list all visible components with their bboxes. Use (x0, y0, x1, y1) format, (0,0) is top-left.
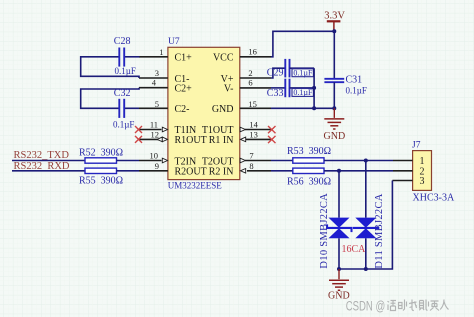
node D10 tap junction (337, 169, 341, 173)
svg-text:11: 11 (150, 120, 158, 130)
U7 pin 9 stub (139, 170, 168, 172)
node bus/pin15 junction (312, 106, 316, 110)
no-connect X pin 12 (135, 136, 142, 143)
U7 pin numbers left (150, 47, 164, 171)
svg-text:C2+: C2+ (175, 84, 193, 95)
wire C29 to bus (290, 67, 315, 69)
U7 pin 8 stub (240, 169, 271, 174)
capacitor C31 (324, 79, 344, 82)
J7 pin numbers (420, 156, 425, 187)
capacitor C32 (119, 99, 124, 118)
node bus/C33 junction (312, 86, 316, 90)
watermark chinese glyphs (388, 300, 449, 311)
svg-text:14: 14 (249, 119, 258, 129)
svg-text:C31: C31 (346, 74, 363, 85)
svg-text:R55 390Ω: R55 390Ω (79, 176, 123, 187)
svg-text:J7: J7 (412, 141, 421, 151)
wire R55 to pin9 (117, 170, 140, 172)
svg-text:R53 390Ω: R53 390Ω (287, 146, 331, 157)
svg-text:3: 3 (420, 176, 425, 187)
wire bus C29/C33 down to pin15 wire (313, 68, 315, 108)
U7 pin 4 stub (139, 87, 168, 89)
wire pin6 to C33 (271, 87, 285, 89)
wire pin15 to GND (271, 107, 334, 109)
svg-text:R2 IN: R2 IN (209, 167, 234, 178)
J7 pin 2 stub (393, 170, 413, 172)
svg-text:C32: C32 (114, 88, 131, 99)
node 3.3V junction (332, 29, 336, 33)
resistor R56 (293, 168, 324, 173)
U7 pin numbers right (248, 47, 258, 171)
wire pin2 jog to C29 (271, 68, 285, 78)
svg-text:GND: GND (324, 131, 346, 142)
svg-text:XHC3-3A: XHC3-3A (413, 193, 455, 204)
resistor R52 (85, 158, 117, 163)
svg-text:RS232_TXD: RS232_TXD (14, 150, 70, 161)
IC U7 body (168, 47, 240, 179)
svg-text:D11 SMBJ22CA: D11 SMBJ22CA (374, 193, 385, 268)
wire D11 vertical (365, 161, 367, 270)
svg-text:7: 7 (249, 150, 253, 160)
wire pin7 to R53 (271, 160, 293, 162)
svg-text:C28: C28 (114, 36, 131, 47)
U7 pin 12 stub (139, 137, 168, 142)
U7 pin 5 stub (139, 107, 168, 109)
wire R56 to J7 pin2 (324, 170, 393, 172)
wire D10 vertical (338, 171, 340, 269)
capacitor C33 (285, 79, 289, 98)
U7 pin 11 stub (139, 127, 168, 132)
svg-text:R1OUT: R1OUT (175, 135, 207, 146)
J7 pin 3 stub (392, 180, 412, 182)
wire 3.3V node to C31 (333, 31, 335, 79)
no-connect X pin 14 (268, 126, 276, 133)
wire RS232_TXD to R52 (12, 160, 85, 162)
U7 pin 14 stub (240, 127, 271, 132)
U7 pin names left column (175, 53, 207, 178)
svg-text:0.1µF: 0.1µF (113, 119, 134, 129)
J7 pin 1 stub (393, 160, 413, 162)
svg-text:UM3232EESE: UM3232EESE (168, 181, 223, 191)
svg-text:0.1µF: 0.1µF (346, 85, 367, 95)
svg-text:C33: C33 (267, 88, 284, 99)
resistor R53 (293, 158, 324, 163)
node D11/rail junction (364, 267, 368, 271)
svg-text:6: 6 (248, 78, 252, 88)
resistor R55 (85, 168, 117, 173)
wire pin16 to 3.3V rail (271, 31, 334, 57)
wire C33 to bus (290, 87, 315, 89)
svg-text:CSDN @: CSDN @ (346, 298, 386, 313)
svg-text:13: 13 (249, 129, 258, 139)
svg-text:12: 12 (151, 129, 160, 139)
power 3.3V symbol (327, 21, 341, 30)
U7 pin names right column (202, 53, 234, 178)
svg-text:0.1µF: 0.1µF (293, 68, 313, 77)
wire C28 loop (pin1 to pin3) (81, 57, 139, 78)
U7 pin 2 stub (240, 77, 271, 79)
svg-text:3.3V: 3.3V (324, 10, 345, 21)
wire J7 pin3 down to ground rail (339, 181, 392, 270)
wire pin8 to R56 (271, 170, 293, 172)
ground GND (lower) (329, 269, 349, 290)
C33 value box 0.1uF (292, 88, 313, 97)
U7 pin 13 stub (240, 137, 271, 142)
capacitor C29 (285, 59, 289, 78)
svg-text:3: 3 (155, 68, 159, 78)
svg-text:0.1µF: 0.1µF (293, 88, 313, 97)
svg-text:VCC: VCC (213, 53, 234, 64)
svg-text:U7: U7 (168, 37, 180, 47)
svg-text:D10 SMBJ22CA: D10 SMBJ22CA (319, 193, 330, 269)
svg-text:GND: GND (212, 104, 234, 115)
no-connect X pin 11 (135, 126, 142, 133)
svg-text:10: 10 (150, 150, 159, 160)
capacitor C28 (119, 48, 124, 67)
U7 pin 6 stub (240, 87, 271, 89)
svg-text:C2-: C2- (175, 104, 190, 115)
svg-text:R56 390Ω: R56 390Ω (287, 177, 331, 188)
U7 pin 15 stub (240, 107, 271, 109)
node D11 tap junction (364, 159, 368, 163)
svg-text:9: 9 (155, 161, 159, 171)
svg-text:16CA: 16CA (342, 244, 367, 255)
svg-text:16: 16 (248, 47, 257, 57)
TVS diode D10 (326, 218, 352, 239)
svg-text:C1+: C1+ (175, 53, 193, 64)
U7 pin 16 stub (240, 56, 271, 58)
svg-text:0.1µF: 0.1µF (115, 66, 136, 76)
svg-text:R1 IN: R1 IN (209, 135, 234, 146)
svg-text:1: 1 (159, 47, 163, 57)
U7 pin 10 stub (139, 158, 168, 163)
wire C31 to GND node (333, 82, 335, 108)
wire C32 loop (pin4 to pin5) (81, 88, 139, 109)
no-connect X pin 13 (268, 136, 276, 143)
wire R53 to J7 pin1 (324, 160, 393, 162)
TVS diode D11 (353, 218, 379, 239)
U7 pin 1 stub (139, 56, 168, 58)
svg-text:2: 2 (248, 68, 252, 78)
svg-text:C29: C29 (267, 68, 284, 79)
connector J7 body (413, 151, 432, 191)
svg-text:8: 8 (249, 161, 253, 171)
ground GND (upper) (324, 108, 344, 129)
C29 value box 0.1uF (292, 68, 313, 77)
wire RS232_RXD to R55 (12, 170, 85, 172)
svg-text:R52 390Ω: R52 390Ω (79, 147, 123, 158)
U7 pin 7 stub (240, 158, 271, 163)
U7 pin 3 stub (139, 77, 168, 79)
node D10/rail junction (337, 267, 341, 271)
wire R52 to pin10 (117, 160, 140, 162)
svg-text:V-: V- (224, 84, 234, 95)
node pin15/C31/GND junction (332, 106, 336, 110)
svg-text:R2OUT: R2OUT (175, 167, 207, 178)
